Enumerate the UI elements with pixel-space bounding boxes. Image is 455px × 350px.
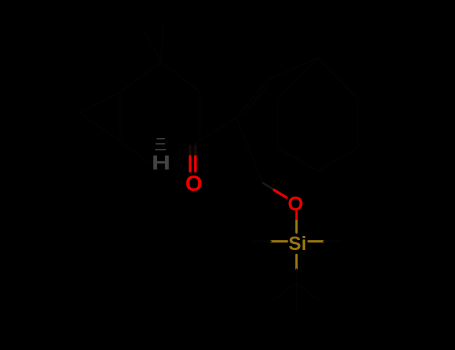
svg-text:H: H [151,152,170,174]
bond C2-CH2 [236,118,263,183]
tBu methyl 2 [297,283,323,302]
bond CH2-O2 dark half [263,183,275,190]
double bond C2=CH line 2 [242,84,269,116]
wire ring A lower-left edge (clipped at H label) [120,141,149,163]
carbonyl C=O double bond upper dark halves [189,146,192,157]
Si right methyl bond olive half [309,240,324,242]
carbonyl C=O double bond red halves [189,157,192,172]
cyclohexyl ring (top right) [278,58,358,171]
wire ring A lower-right edge (clipped at H label) [174,141,200,164]
double bond C2=CH line 1 [236,79,269,118]
ring A (main six-membered ring, tall hexagon) [120,62,200,141]
Si left methyl bond dark half [253,240,271,242]
hashed wedge to H (stereocenter) [156,139,166,150]
Si down bond dark half [296,269,298,283]
Si right methyl bond dark half [324,240,342,242]
bond C(=O)-C2 [194,118,236,144]
svg-text:O: O [185,171,202,196]
tBu methyl 1 [271,283,297,302]
Si left methyl bond olive half [271,240,287,242]
H label [151,152,170,174]
bond CH-cyclohexyl [269,58,318,79]
Si down bond olive half [295,255,297,269]
svg-text:Si: Si [289,234,307,255]
bond CH2-O2 red half [274,190,287,198]
tBu methyl 3 [296,283,298,313]
bond O2-Si olive half [295,221,297,233]
cyclopropane ring fused at left edge [80,92,120,141]
methyl M1 (gem-dimethyl left) [143,29,161,62]
bond ringA-C(=O) [194,141,200,145]
bond O2-Si red half [295,212,297,222]
methyl M2 (gem-dimethyl right) [161,26,163,62]
